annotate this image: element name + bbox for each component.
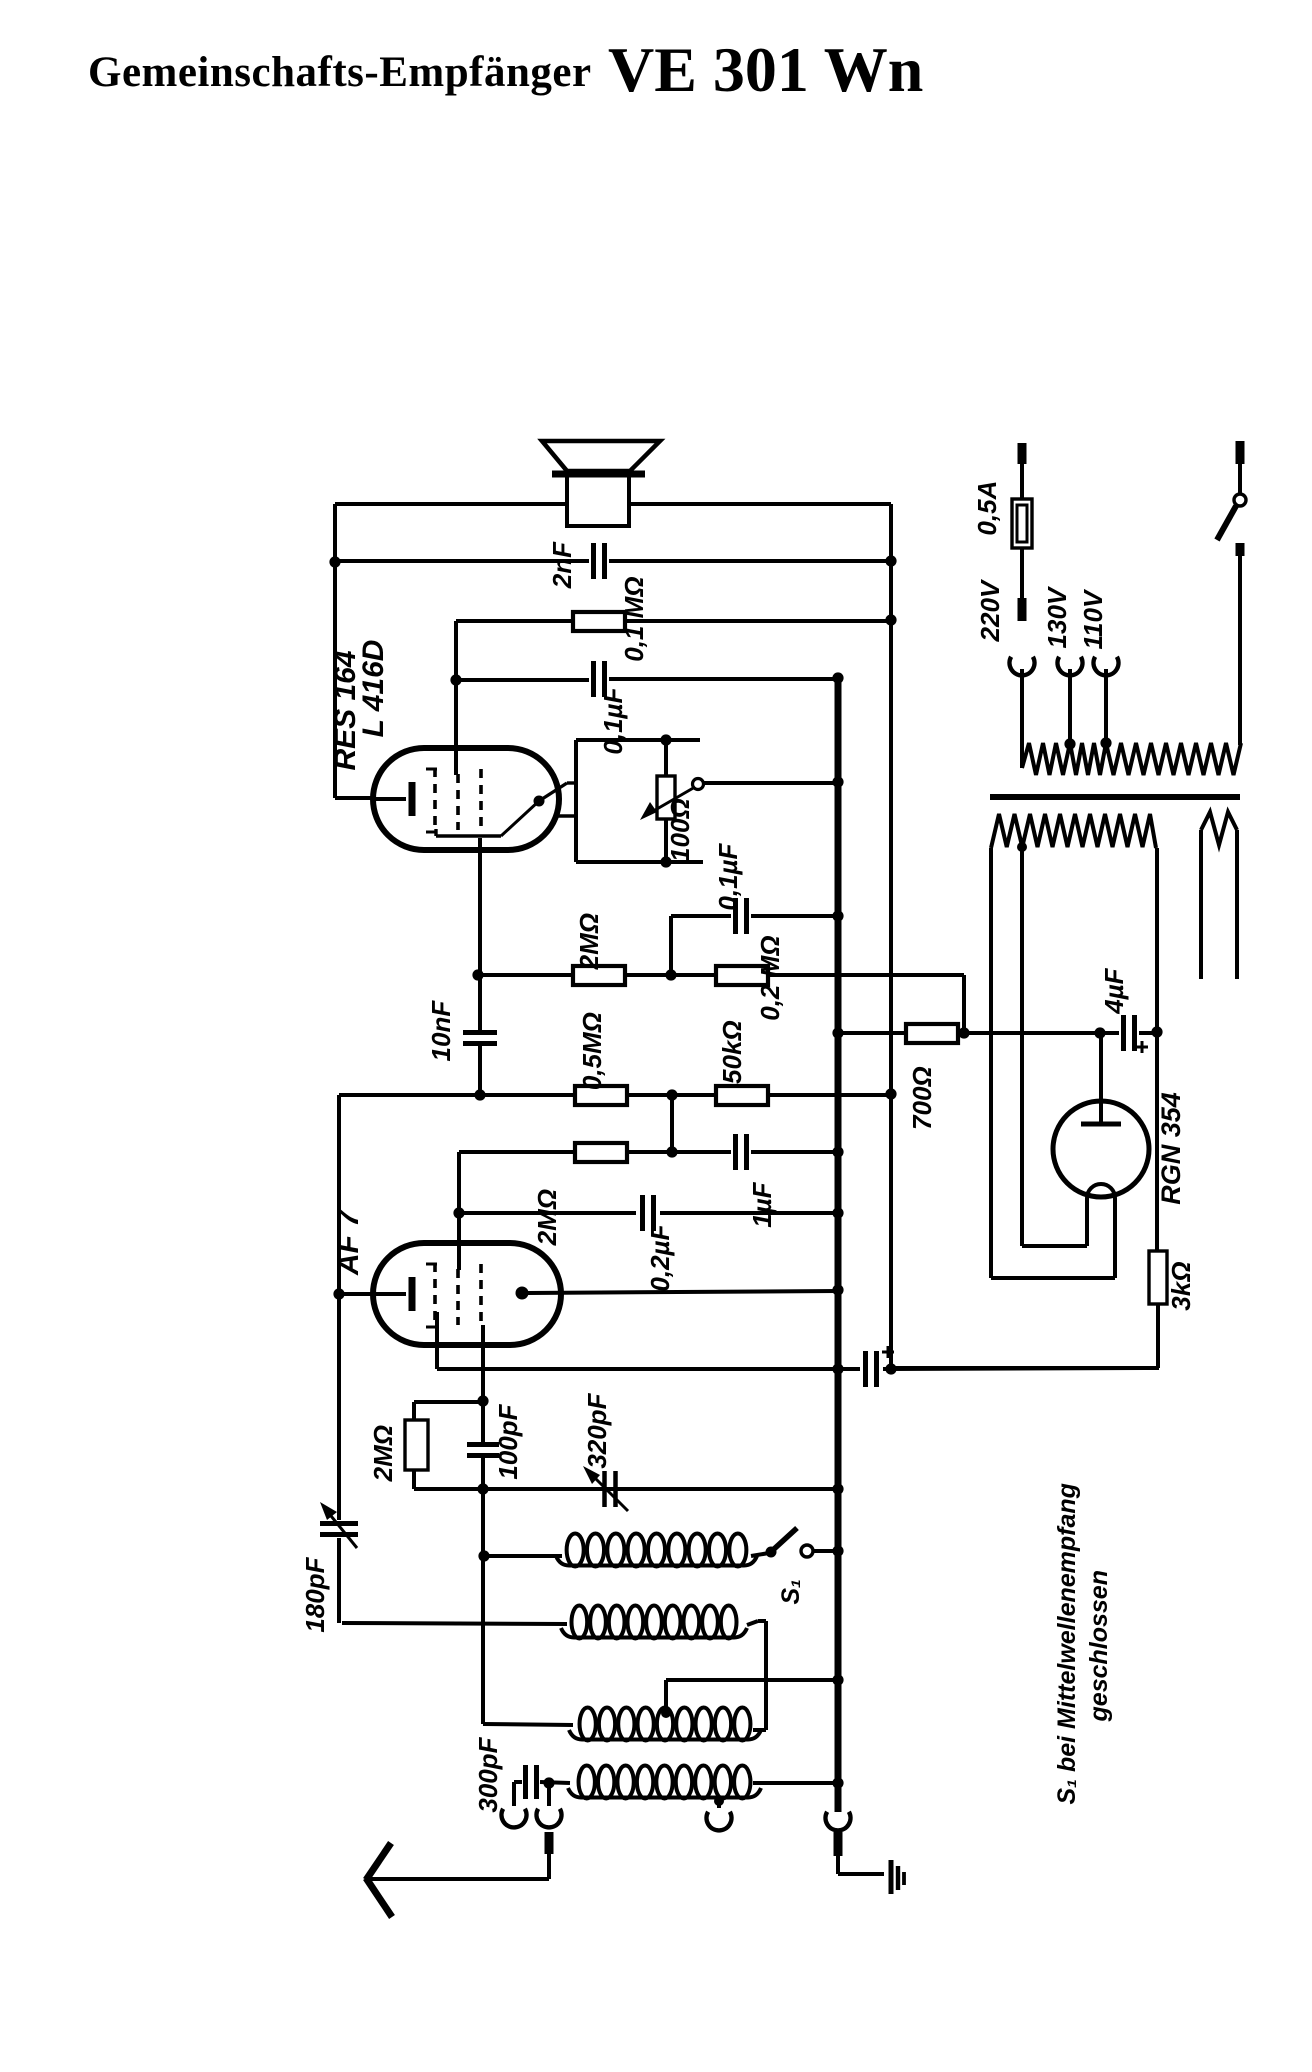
wire RGN354 anode lead <box>1099 1033 1103 1124</box>
svg-text:geschlossen: geschlossen <box>1085 1570 1113 1722</box>
wire coil2 exit <box>747 1621 758 1625</box>
ground symbol <box>889 1860 894 1894</box>
transformer secondary heater <box>1201 812 1237 845</box>
node junction bus/wiper <box>832 776 843 787</box>
wire bus to ground <box>836 1856 840 1874</box>
node pot top junction <box>660 734 671 745</box>
wire 4uF line left <box>437 1367 860 1371</box>
wire antenna lead <box>547 1854 551 1879</box>
wire 0.5M line <box>339 1093 575 1097</box>
wire speaker line right <box>629 502 891 506</box>
wire coil4 tap <box>717 1801 721 1808</box>
node pot bottom junction <box>660 856 671 867</box>
wire RES164 bottom lead <box>478 838 482 1030</box>
node junction bus/2nF <box>885 555 896 566</box>
node junction AF7 lead/2M3 <box>477 1395 488 1406</box>
capacitor 180pF trimmer <box>320 1521 358 1526</box>
wire 110V down <box>1104 669 1108 743</box>
capacitor 320pF variable <box>602 1471 607 1507</box>
switch S1 circle <box>801 1545 813 1557</box>
socket coil4 tap <box>706 1812 731 1831</box>
svg-text:S₁: S₁ <box>777 1579 805 1604</box>
wire filament left leg <box>1085 1198 1089 1246</box>
resistor 2 MOhm <box>573 966 625 985</box>
wire pot top lead <box>664 740 668 776</box>
wire AF7 cathode down <box>435 1312 439 1369</box>
node junction 4uF/secondary leg <box>1151 1026 1162 1037</box>
wire 2M3 top <box>414 1400 483 1404</box>
wire tap to bus <box>666 1678 838 1682</box>
wire 0.1M line left <box>456 619 573 623</box>
mains switch lever <box>1217 506 1236 540</box>
svg-text:AF 7: AF 7 <box>332 1209 365 1276</box>
wire 0.1uF2 left <box>671 914 731 918</box>
node junction 300pF/coil4 <box>543 1777 554 1788</box>
capacitor 100pF <box>467 1442 499 1447</box>
node junction thin bus/50k <box>885 1088 896 1099</box>
node junction bus/0.1M <box>885 614 896 625</box>
node junction rail/AF7 grid <box>333 1288 344 1299</box>
svg-text:4µF: 4µF <box>1099 967 1129 1014</box>
svg-text:2MΩ: 2MΩ <box>368 1425 398 1482</box>
wire 0.1M line right <box>625 619 891 623</box>
wire rail to RES164 cathode <box>335 796 374 800</box>
node junction 2M2/1uF <box>666 1146 677 1157</box>
pin mains switch top <box>1236 441 1245 464</box>
pot wiper circle <box>693 779 704 790</box>
wire fuse bottom <box>1020 548 1024 598</box>
svg-text:Gemeinschafts-Empfänger: Gemeinschafts-Empfänger <box>88 49 592 96</box>
wire 0.2uF line <box>459 1211 636 1215</box>
wire 130V down <box>1068 669 1072 744</box>
wire AF7 grid lead <box>457 1152 461 1270</box>
wire switch top <box>1238 464 1242 494</box>
capacitor 300pF <box>523 1765 528 1799</box>
pin 220V <box>1018 598 1027 621</box>
node RES164 anode <box>534 796 545 807</box>
node coil3 tap <box>661 1708 671 1718</box>
wire fuse top <box>1020 464 1024 499</box>
svg-text:S₁ bei Mittelwellenempfang: S₁ bei Mittelwellenempfang <box>1053 1483 1081 1804</box>
wire rail to AF7 cathode <box>339 1292 374 1296</box>
resistor 0,5 MOhm <box>575 1086 627 1105</box>
tube RGN354 <box>1053 1101 1149 1197</box>
resistor 700 Ohm <box>906 1024 958 1043</box>
node junction V1/2nF <box>329 556 340 567</box>
node junction bus/4uF <box>832 1363 843 1374</box>
svg-text:0,2µF: 0,2µF <box>645 1223 675 1291</box>
socket ground bus <box>825 1812 850 1831</box>
wire grid lead RES164 <box>454 621 458 775</box>
wire 2M3 bottom <box>412 1470 416 1489</box>
svg-text:0,2 MΩ: 0,2 MΩ <box>755 935 785 1020</box>
node junction jog/700 <box>958 1027 969 1038</box>
plus sign 4uF <box>882 1351 894 1354</box>
svg-text:0,5A: 0,5A <box>972 481 1002 536</box>
tube AF7 <box>373 1243 561 1345</box>
svg-text:3kΩ: 3kΩ <box>1166 1261 1196 1310</box>
node junction grid/0.2uF <box>453 1207 464 1218</box>
antenna arrow <box>366 1843 391 1880</box>
mains switch circle <box>1234 494 1246 506</box>
wire right rail thin bus <box>889 504 893 1369</box>
svg-text:220V: 220V <box>975 578 1005 642</box>
svg-text:0,1 MΩ: 0,1 MΩ <box>619 576 649 661</box>
node junction RGN anode <box>1094 1027 1105 1038</box>
inductor L2 <box>571 1606 587 1639</box>
wire pot box top <box>576 738 700 742</box>
node junction thin bus/4uF <box>885 1363 896 1374</box>
svg-text:180pF: 180pF <box>300 1556 330 1632</box>
wire AF7 g-lead down <box>481 1325 485 1400</box>
wire secondary tap down <box>1020 847 1024 1246</box>
node junction 100pF/320 line <box>477 1483 488 1494</box>
wire 0.1uF line left <box>456 678 589 682</box>
wire 220V down <box>1020 669 1024 768</box>
svg-text:L 416D: L 416D <box>357 640 390 738</box>
socket 110V <box>1094 657 1119 676</box>
wire pot bottom lead <box>664 819 668 862</box>
pot wiper arrow <box>650 787 695 813</box>
RGN354 filament <box>1087 1184 1115 1198</box>
wire coil1 entry <box>484 1554 562 1558</box>
socket 220V <box>1009 657 1034 676</box>
potentiometer 100 Ohm <box>657 776 675 819</box>
node junction 130V tap <box>1064 738 1075 749</box>
wire left rail V2 <box>337 1095 341 1520</box>
svg-text:0,1µF: 0,1µF <box>713 842 743 910</box>
svg-text:2MΩ: 2MΩ <box>532 1189 562 1246</box>
pin ground bus <box>834 1832 843 1856</box>
svg-text:100Ω: 100Ω <box>665 798 695 862</box>
wire RES164 anode lead out <box>539 783 567 801</box>
wire 0.1uF2 right <box>751 914 838 918</box>
wire left rail V1 <box>333 504 337 798</box>
svg-text:700Ω: 700Ω <box>907 1066 937 1130</box>
fuse 0,5A <box>1012 499 1032 548</box>
capacitor 4uF electrolytic <box>863 1351 868 1387</box>
svg-text:100pF: 100pF <box>493 1403 523 1479</box>
node secondary tap <box>1017 842 1027 852</box>
svg-text:RGN 354: RGN 354 <box>1156 1092 1186 1205</box>
pin antenna <box>545 1832 554 1854</box>
wire 2M line <box>478 973 573 977</box>
capacitor 0,1uF coupling <box>591 661 596 697</box>
node junction 2M/0.2M <box>665 969 676 980</box>
wire RES164 lead2 out <box>556 814 576 817</box>
node junction bus/0.2uF <box>832 1207 843 1218</box>
resistor 0,2 MOhm <box>716 966 768 985</box>
svg-text:1µF: 1µF <box>747 1181 777 1227</box>
node junction bus/320 line <box>832 1483 843 1494</box>
wire coil3 exit <box>753 1728 766 1732</box>
socket antenna left <box>501 1809 526 1828</box>
node coil4 tap <box>714 1796 724 1806</box>
node junction bus/S1 <box>832 1545 843 1556</box>
wire RES164 anode plate <box>436 834 501 837</box>
inductor L1 <box>567 1534 584 1567</box>
wire 2nF line left <box>335 559 589 563</box>
node junction 0.5M/50k <box>666 1089 677 1100</box>
wire thick bus <box>835 678 842 1812</box>
node junction bus/AF7 anode <box>832 1284 843 1295</box>
svg-text:0,5MΩ: 0,5MΩ <box>577 1012 607 1090</box>
wire jog 0.2M to 700 <box>962 975 966 1033</box>
svg-text:320pF: 320pF <box>582 1392 612 1468</box>
wire 300pF right <box>540 1782 570 1783</box>
capacitor 10nF <box>463 1030 497 1035</box>
socket 130V <box>1058 657 1083 676</box>
node AF7 anode <box>516 1287 529 1300</box>
speaker <box>542 441 660 471</box>
capacitor 0,2uF <box>640 1195 645 1231</box>
wire 320pF line <box>483 1487 838 1491</box>
pin fuse top <box>1018 443 1027 464</box>
svg-text:2nF: 2nF <box>547 541 577 589</box>
svg-text:0,1µF: 0,1µF <box>598 686 628 754</box>
transformer primary <box>1022 743 1241 775</box>
wire 2nF line right <box>609 559 891 563</box>
node junction bus/1uF <box>832 1146 843 1157</box>
wire junction 0.5M to 2M2 <box>670 1095 674 1152</box>
svg-text:2MΩ: 2MΩ <box>574 913 604 970</box>
svg-text:130V: 130V <box>1042 585 1072 648</box>
wire pot box bottom <box>576 860 703 864</box>
switch S1 contact <box>766 1547 777 1558</box>
node junction grid/0.1uF <box>450 674 461 685</box>
wire 0.1uF line right <box>609 677 837 681</box>
wire S1 to bus <box>813 1549 838 1553</box>
wire 2M2 line <box>459 1150 575 1154</box>
wire pot box left edge <box>574 740 578 862</box>
wire heater leg left <box>1199 830 1203 979</box>
wire coil4 exit <box>753 1781 838 1785</box>
wire 3k bottom <box>1156 1304 1160 1368</box>
wire secondary left leg <box>989 848 993 1278</box>
svg-text:300pF: 300pF <box>473 1736 503 1812</box>
svg-text:50kΩ: 50kΩ <box>717 1020 747 1084</box>
wire coil2 entry <box>342 1623 567 1624</box>
switch S1 lever <box>774 1528 797 1549</box>
resistor 50 kOhm <box>716 1086 768 1105</box>
wire 300pF left <box>514 1780 522 1784</box>
tube RES164 <box>373 748 559 850</box>
resistor 0,1 MOhm <box>573 612 625 631</box>
wire 100pF stubs <box>481 1402 485 1444</box>
wire coil1 exit <box>751 1553 769 1556</box>
node junction grid lead/2M <box>472 969 483 980</box>
wire switch down <box>1238 556 1242 745</box>
resistor 2 MOhm 2 <box>575 1143 627 1162</box>
capacitor 0,1uF grid <box>733 898 738 934</box>
wire ant socket lead <box>547 1783 551 1806</box>
svg-text:10nF: 10nF <box>426 1000 456 1062</box>
inductor L4 <box>579 1766 595 1799</box>
inductor L3 <box>580 1708 596 1741</box>
transformer secondary main <box>991 814 1156 848</box>
node junction thick bus top <box>832 672 843 683</box>
wire wiper to bus <box>703 781 838 785</box>
capacitor 2nF <box>591 543 596 579</box>
node junction bus/0.1uF2 <box>832 910 843 921</box>
wire heater leg right <box>1235 830 1239 979</box>
wire AF7 anode lead <box>528 1291 838 1293</box>
node junction bus/coil4 <box>832 1777 843 1788</box>
node junction rail/coil1 <box>478 1550 489 1561</box>
wire 10nF to 0.5M line <box>478 1046 482 1095</box>
svg-text:110V: 110V <box>1078 588 1108 649</box>
wire coil3 entry <box>483 1724 573 1725</box>
transformer core <box>990 794 1240 800</box>
wire filament right leg <box>1113 1198 1117 1278</box>
node junction 10nF/0.5M <box>474 1089 485 1100</box>
wire speaker line left <box>335 502 567 506</box>
wire RES164 anode diagonal <box>501 801 539 836</box>
node junction 110V tap <box>1100 737 1111 748</box>
plus sign 4uF rectifier <box>1136 1046 1148 1049</box>
pin mains switch bottom <box>1236 543 1245 556</box>
wire coil2-coil3 link <box>764 1621 768 1730</box>
capacitor 4uF rectifier <box>1121 1015 1126 1051</box>
socket antenna right <box>537 1809 562 1828</box>
wire secondary right leg <box>1155 848 1159 1251</box>
resistor 2 MOhm 3 <box>405 1420 428 1470</box>
RGN354 anode bar <box>1081 1122 1121 1127</box>
wire left rail V7 <box>481 1489 485 1556</box>
wire coil3 tap up <box>664 1680 668 1713</box>
svg-text:VE 301 Wn: VE 301 Wn <box>608 34 923 105</box>
resistor 3kOhm <box>1149 1251 1167 1304</box>
wire 4uF line right <box>883 1368 1159 1369</box>
node junction bus/700 <box>832 1027 843 1038</box>
wire 700 line <box>838 1031 906 1035</box>
node junction bus/tap <box>832 1674 843 1685</box>
capacitor 1uF <box>733 1134 738 1170</box>
